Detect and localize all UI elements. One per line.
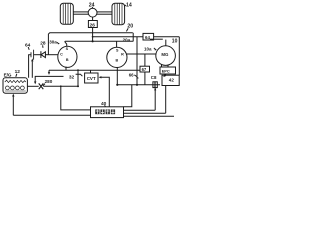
- charge arrow engine to battery: [31, 58, 33, 77]
- label E/G: [4, 73, 12, 78]
- junction dot shaft/drop: [60, 85, 62, 87]
- wires MG bottom to EPC: [161, 64, 163, 67]
- P2 letter B bottom: [115, 59, 118, 63]
- leader 32: [76, 74, 83, 76]
- label 10a with arrow: [144, 46, 152, 51]
- label 12: [15, 69, 21, 75]
- leader 14: [124, 5, 126, 6]
- sensor wire from diff shaft to right: [93, 36, 143, 38]
- wire differential to box 26: [92, 17, 94, 20]
- wire line A end down to diode node: [47, 34, 49, 55]
- svg-text:20a: 20a: [123, 38, 131, 43]
- svg-text:C: C: [60, 53, 63, 57]
- wire row down to engine shaft: [77, 70, 79, 86]
- wire MG top up: [165, 40, 167, 46]
- leader 28: [42, 45, 44, 48]
- label 30a with arrow to P1: [49, 39, 57, 44]
- junction dot row/78: [77, 69, 79, 71]
- wire box 64b to right corner: [154, 36, 180, 38]
- junction dot shaft/78: [77, 85, 79, 87]
- svg-text:40: 40: [101, 101, 107, 107]
- leader 40: [104, 105, 107, 107]
- planetary P2 (circle): [107, 47, 127, 67]
- label 20: [127, 24, 133, 30]
- wire R to gear box 67: [144, 54, 146, 66]
- P2 letter S top: [116, 48, 119, 52]
- wheel right (tire): [112, 3, 125, 25]
- leader 280: [43, 84, 45, 86]
- engine E/G (rounded box): [3, 78, 27, 93]
- controller text (CJK blocks): [95, 109, 115, 114]
- bottom bus wire: [13, 114, 90, 116]
- clutch 28b (X symbol): [39, 83, 44, 89]
- planetary P1 (circle): [58, 46, 77, 67]
- svg-text:C8: C8: [151, 75, 157, 80]
- box EPC: [160, 67, 176, 74]
- svg-text:12: 12: [15, 69, 21, 75]
- battery plates: [31, 50, 34, 60]
- shaft end cap: [132, 33, 134, 42]
- axle left (double line): [73, 12, 88, 14]
- wire bus down to controller top right: [124, 85, 132, 107]
- wheel left (tire): [60, 3, 73, 24]
- wire box 26 down to shaft B: [92, 28, 94, 42]
- leader 12: [15, 74, 18, 77]
- label 40: [101, 101, 107, 107]
- control corner with arrow down: [48, 70, 50, 75]
- P1 letter S top: [66, 47, 69, 51]
- label 24: [89, 2, 95, 8]
- sensor box 64b on wire: [143, 33, 154, 40]
- arrow 30a: [57, 41, 58, 44]
- svg-text:CVT: CVT: [87, 76, 96, 81]
- axle right (double line): [97, 12, 112, 14]
- junction dot diff/shaft B: [92, 40, 94, 42]
- svg-text:10: 10: [172, 38, 178, 44]
- wire box 67 down to bus: [144, 72, 146, 85]
- box 67: [140, 66, 150, 72]
- leader 64: [28, 47, 29, 50]
- svg-text:10a: 10a: [144, 46, 152, 51]
- wire P2 bottom down to bus: [116, 68, 118, 85]
- motor MG (circle): [156, 46, 176, 66]
- svg-text:66: 66: [129, 73, 134, 78]
- svg-text:67: 67: [142, 67, 147, 72]
- engine arrow from bottom bus: [12, 94, 14, 116]
- arrow 10a: [154, 47, 155, 50]
- label 42: [169, 78, 175, 83]
- svg-text:280: 280: [45, 79, 53, 84]
- wire engine top to battery (corner): [29, 55, 31, 78]
- wire C8 down to controller w1: [154, 88, 156, 111]
- svg-text:64: 64: [25, 42, 31, 48]
- control arrow into CVT: [99, 76, 110, 107]
- arrow EPC to box 42: [165, 74, 166, 76]
- diode 28: [41, 51, 46, 58]
- svg-text:32: 32: [69, 74, 75, 80]
- wire diode to planetary P1: [45, 54, 58, 56]
- shaft line B: [65, 41, 133, 46]
- wire shaft B to planetary P2 top: [116, 41, 118, 47]
- svg-text:E/G: E/G: [4, 73, 12, 78]
- junction dot x137/bus: [136, 84, 138, 86]
- controller right wire 2: [124, 112, 166, 114]
- svg-text:14: 14: [126, 2, 132, 8]
- engine output shaft: [27, 85, 38, 87]
- controller right wire 3: [124, 115, 175, 117]
- label 20a: [123, 38, 131, 43]
- sensor line x137 down to bus: [136, 37, 138, 85]
- wire right edge down to box 42: [178, 37, 180, 75]
- svg-text:R: R: [121, 53, 124, 57]
- MG text: [161, 52, 169, 57]
- label C8: [151, 75, 157, 80]
- shaft clutch to vertical 78: [43, 85, 78, 87]
- svg-text:42: 42: [169, 78, 175, 83]
- svg-text:64: 64: [145, 35, 150, 40]
- leader 20: [126, 28, 128, 31]
- junction dot diff/sensor wire: [92, 36, 94, 38]
- wire 42 bottom down to controller w2: [165, 86, 167, 114]
- box 26: [88, 21, 97, 29]
- controller box 40: [91, 107, 124, 118]
- svg-text:B: B: [115, 59, 118, 63]
- wire battery to diode: [34, 54, 41, 56]
- clutch control arrow: [34, 76, 64, 84]
- arrow 66: [134, 75, 137, 77]
- label 66 with arrow: [129, 73, 134, 78]
- long wire row 70.2: [49, 69, 140, 71]
- svg-text:24: 24: [89, 2, 95, 8]
- box 42: [162, 75, 179, 85]
- P1 letter C left: [60, 53, 63, 57]
- wire P2 ring to MG rotor: [127, 53, 156, 55]
- drop wire from shaft to controller: [61, 86, 91, 110]
- label 280: [45, 79, 53, 84]
- shaft line A: [48, 33, 132, 34]
- leader 24: [91, 7, 93, 9]
- junction dot P2/bus: [116, 84, 118, 86]
- svg-text:B: B: [66, 58, 69, 62]
- label 28 (diode): [40, 40, 46, 46]
- controller right wire 1: [124, 109, 156, 111]
- svg-text:EPC: EPC: [162, 69, 170, 74]
- P2 letter R right: [121, 53, 124, 57]
- label 14: [126, 2, 132, 8]
- label 32: [69, 74, 75, 80]
- stator line above MG: [150, 38, 163, 40]
- label 64 (battery): [25, 42, 31, 48]
- svg-text:MG: MG: [161, 52, 169, 57]
- svg-text:26: 26: [90, 22, 96, 28]
- label 10: [172, 38, 178, 44]
- wire row into CVT top: [90, 70, 92, 73]
- connector C8 symbol: [153, 82, 157, 88]
- svg-text:30a: 30a: [49, 39, 57, 44]
- box CVT: [85, 73, 98, 83]
- mid bus wire 84.8: [117, 84, 160, 86]
- P1 letter B bottom: [66, 58, 69, 62]
- differential (circle): [88, 8, 97, 17]
- wire P1 bottom to row: [65, 67, 67, 71]
